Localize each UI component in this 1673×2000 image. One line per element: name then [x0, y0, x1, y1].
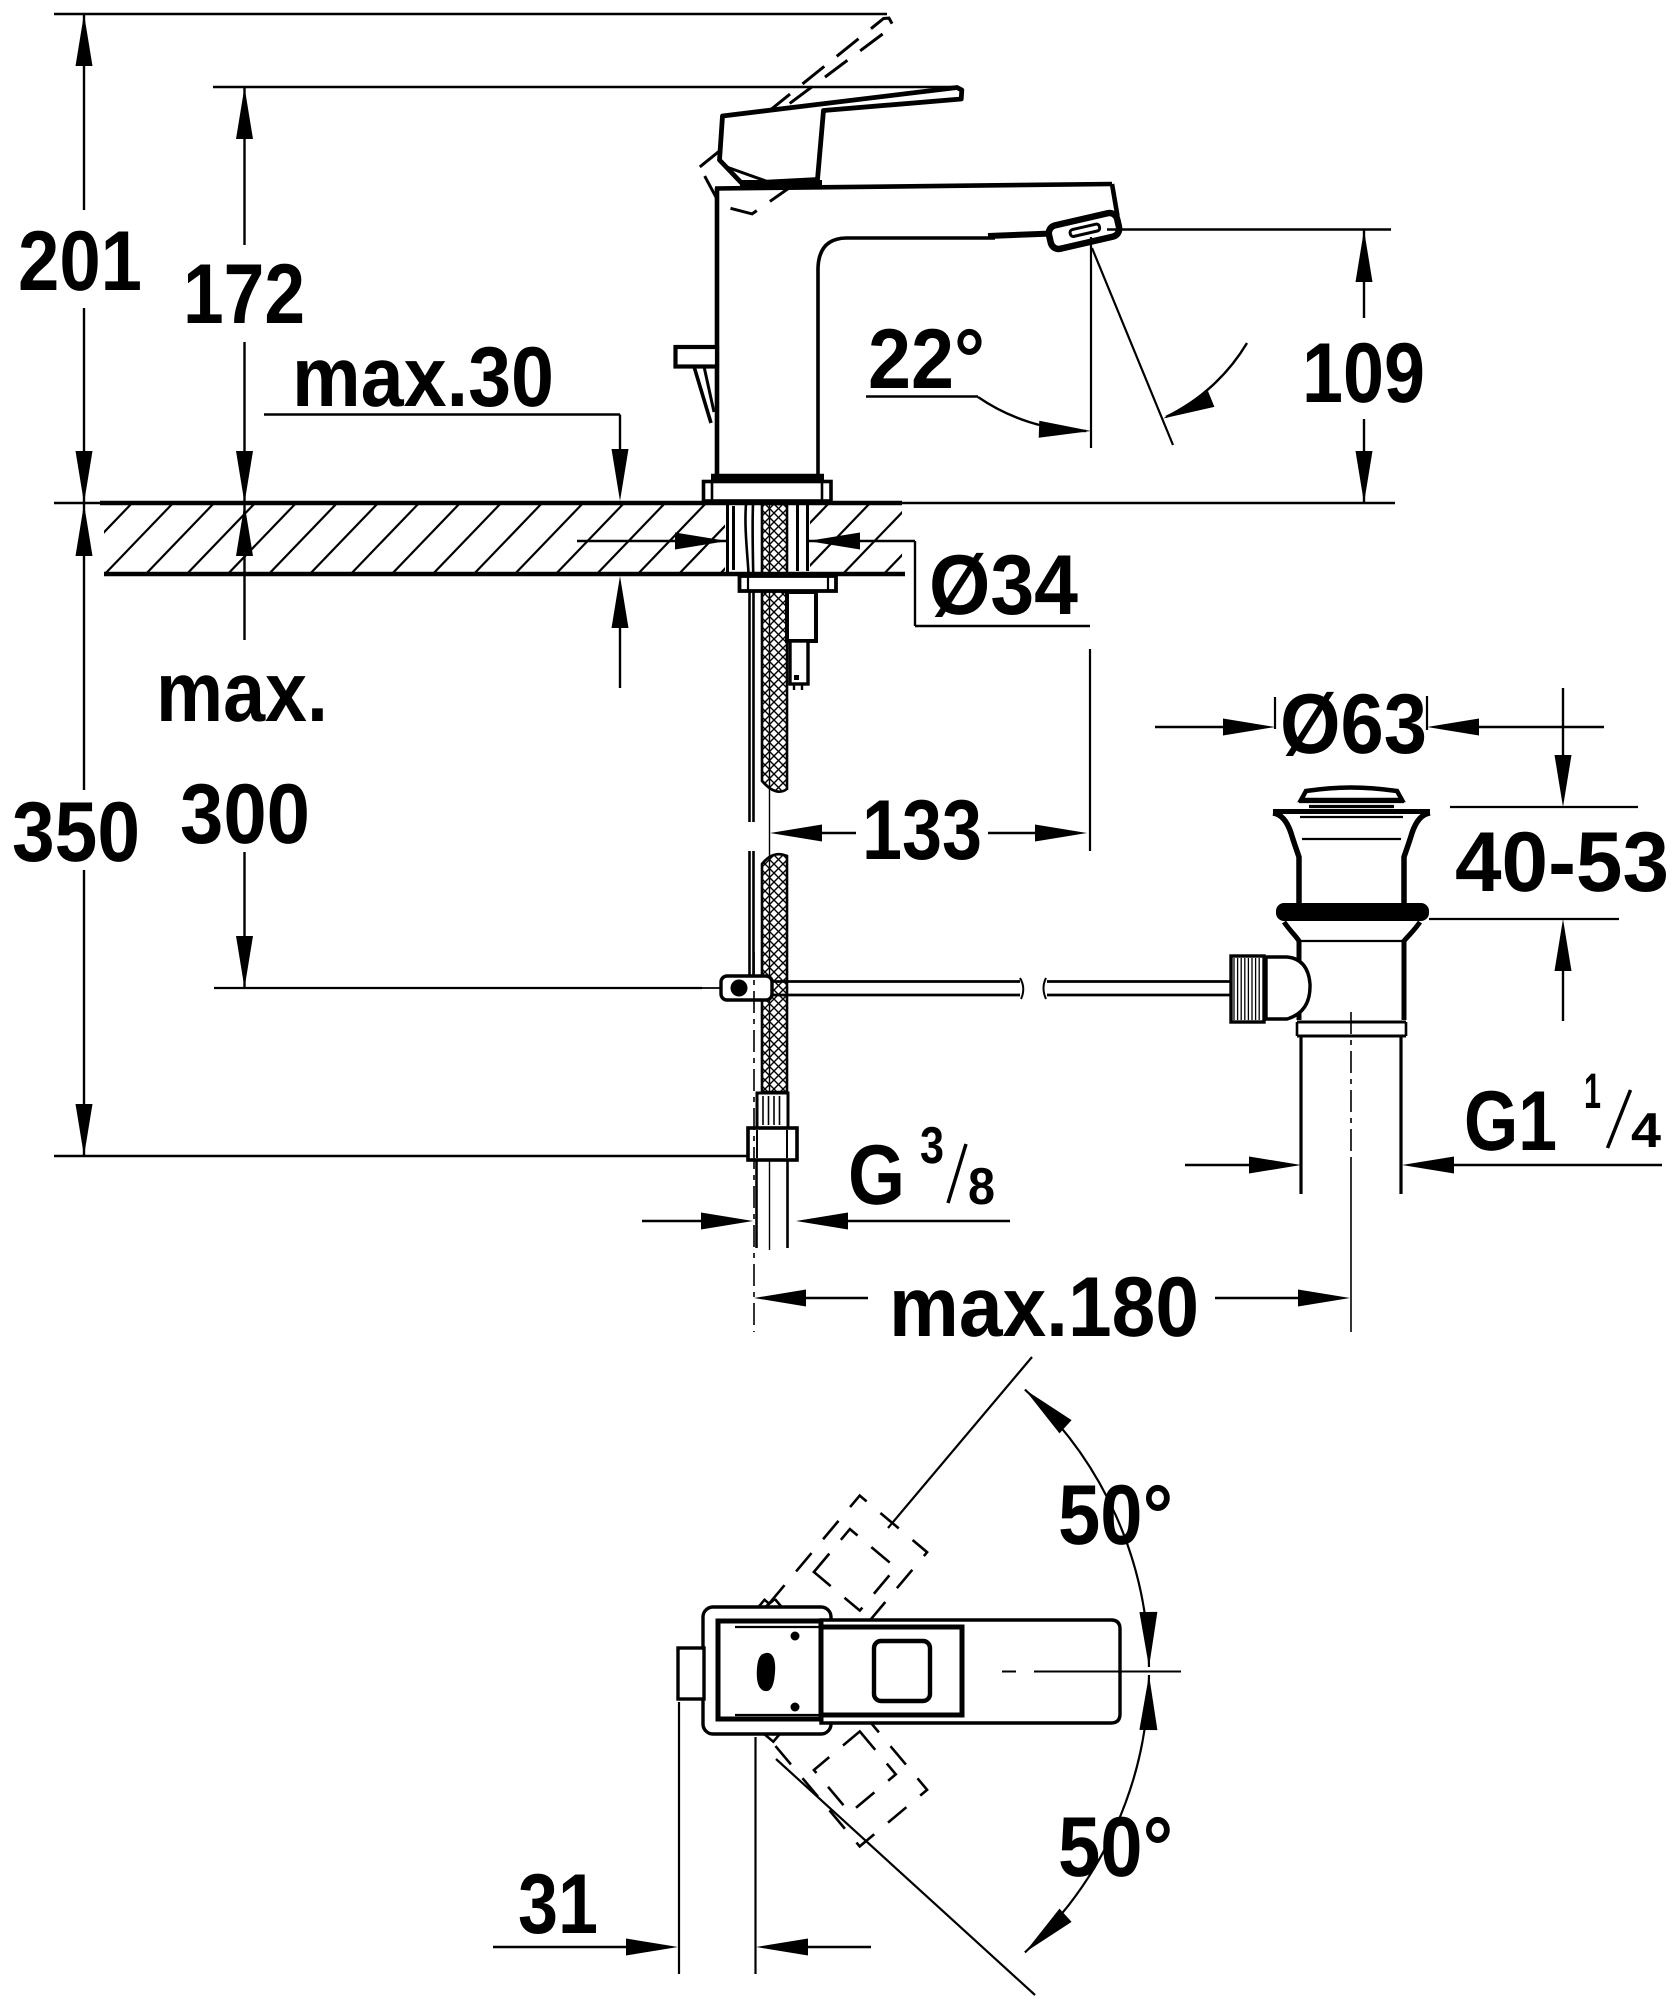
svg-text:109: 109: [1302, 326, 1425, 421]
horizontal linkage rod left part: [772, 980, 1020, 983]
plan spout opening blob: [757, 1653, 775, 1691]
drain centerline dash-dot: [1350, 1012, 1352, 1160]
ref lines 40-53: [1450, 806, 1638, 808]
22deg arc leader left with arrow: [978, 397, 1086, 431]
horizontal linkage rod right part: [1047, 980, 1230, 983]
50deg arc upper with arrows: [1025, 1390, 1149, 1667]
plan handle base inner lines: [735, 1626, 821, 1628]
mounting bracket right: [796, 504, 799, 571]
svg-text:300: 300: [180, 767, 310, 862]
svg-text:G: G: [848, 1128, 905, 1223]
mounting nut below slab: [740, 576, 837, 591]
dimension 31 with arrows: [493, 1939, 871, 1956]
mounting bracket left: [732, 506, 735, 570]
extension line from tab: [678, 1702, 680, 1974]
svg-text:172: 172: [183, 247, 305, 342]
slab bottom line: [104, 572, 905, 577]
plan lever centerline: [1002, 1671, 1016, 1673]
ref line 172 level: [213, 86, 957, 88]
mounting hole left edge: [726, 504, 729, 572]
dimension arrows Ø34: [577, 533, 1090, 627]
dimension max.300 vertical with arrows: [236, 504, 253, 988]
svg-text:Ø63: Ø63: [1280, 677, 1427, 772]
rod break marks: [1020, 978, 1023, 999]
svg-text:201: 201: [18, 214, 142, 309]
dashed rotated handle position upper: [698, 1496, 927, 1742]
ref line spout outlet level: [1107, 228, 1391, 230]
svg-text:350: 350: [12, 785, 140, 880]
knurled adjusting nut: [1231, 956, 1264, 1022]
hose connection nut G3/8: [748, 1128, 797, 1160]
svg-text:max.30: max.30: [292, 330, 554, 425]
50deg arc lower with arrows: [1025, 1675, 1149, 1952]
dimension max.30 leader with arrows: [264, 415, 629, 689]
ref line 350 bottom: [54, 1155, 750, 1157]
svg-text:G1: G1: [1464, 1074, 1557, 1169]
plan handle base rect: [821, 1627, 962, 1715]
svg-text:22°: 22°: [868, 312, 985, 407]
braided supply hose lower section: [762, 854, 787, 1092]
ref line top (201 level): [54, 13, 887, 15]
drain body lower section: [1284, 922, 1299, 1020]
extension line from plate: [754, 1737, 756, 1974]
drain body upper trumpet: [1273, 813, 1299, 904]
base plate (escutcheon): [704, 482, 832, 502]
spray direction slanted line 22deg: [1092, 248, 1173, 445]
slip ring: [1297, 1022, 1406, 1036]
drain cap lip: [1299, 800, 1404, 803]
dimension 172 vertical with arrows: [236, 87, 253, 503]
hose end fitting ribbed: [757, 1093, 788, 1128]
drain plug cap: [1301, 788, 1402, 801]
slab top thick segment: [100, 501, 902, 506]
label G 3/8: [848, 1117, 995, 1223]
22deg arc leader right with arrow: [1166, 343, 1247, 417]
svg-text:3: 3: [920, 1117, 944, 1175]
plan screw dots: [791, 1632, 800, 1641]
plan cartridge cover square: [874, 1641, 930, 1701]
pop-up rod housing under counter: [787, 592, 816, 690]
plan base plate: [703, 1607, 831, 1734]
dimension 109 vertical with arrows: [1356, 230, 1373, 503]
svg-text:max.: max.: [156, 645, 328, 740]
faucet body bottom bar: [711, 474, 824, 481]
svg-text:50°: 50°: [1058, 1468, 1173, 1563]
dimension 133 with arrows: [770, 825, 1087, 842]
label G1 1/4: [1464, 1063, 1661, 1169]
dimension G1 1/4 arrows: [1185, 1157, 1662, 1174]
drain side port clevis: [1266, 957, 1310, 1019]
faucet centerline dash-dot: [753, 952, 755, 1332]
dimension 201 vertical with arrows: [76, 14, 93, 503]
dashed raised handle position: [700, 18, 894, 214]
plan faucet body square: [718, 1621, 821, 1719]
svg-text:40-53: 40-53: [1455, 815, 1669, 910]
svg-text:31: 31: [518, 1857, 598, 1952]
hose centerline: [769, 504, 771, 1250]
svg-text:50°: 50°: [1058, 1800, 1173, 1895]
svg-text:1: 1: [1584, 1063, 1601, 1119]
countertop surface line: [54, 502, 1395, 504]
rubber gasket: [1276, 903, 1429, 921]
dashed rotated handle position lower: [700, 1599, 927, 1846]
linkage joint fitting: [700, 976, 772, 1000]
dimension 40-53 arrows: [1555, 688, 1572, 1021]
svg-text:max.180: max.180: [889, 1260, 1199, 1355]
dimension 350 vertical with arrows: [76, 504, 93, 1156]
aerator outlet: [988, 234, 1052, 237]
plan handle grip outline: [821, 1620, 1120, 1723]
handle chamfer inner line: [728, 168, 770, 183]
swivel diagonal lower 50deg: [776, 1759, 1035, 1995]
spout underside profile: [818, 238, 995, 477]
dimension G3/8 arrows: [642, 1213, 1010, 1230]
ref line max.300 bottom: [214, 987, 702, 989]
drain tailpipe G1 1/4: [1299, 1036, 1302, 1194]
faucet handle lever: [720, 88, 962, 184]
pop-up rod behind body: [694, 367, 711, 424]
dimension max.180 with arrows: [754, 1290, 1350, 1307]
svg-text:8: 8: [968, 1158, 995, 1216]
flexible hose (left) curving: [745, 504, 749, 822]
svg-text:4: 4: [1631, 1104, 1661, 1158]
pull rod pair lower segment: [748, 851, 751, 977]
supply tube below nut: [755, 1160, 758, 1248]
drain body rim: [1273, 809, 1430, 814]
ref line for 133 right: [1089, 649, 1091, 851]
plan rear knob tab: [678, 1648, 704, 1699]
svg-text:Ø34: Ø34: [929, 538, 1078, 633]
swivel diagonal upper 50deg: [888, 1357, 1032, 1528]
handle bottom shadow bar: [740, 180, 822, 187]
svg-text:133: 133: [862, 783, 982, 878]
pop-up rod knob at back of body: [676, 347, 718, 367]
spray angle vertical ref line: [1090, 237, 1092, 448]
faucet body outline: [715, 184, 1118, 477]
dimension Ø63 with arrows: [1155, 696, 1604, 736]
